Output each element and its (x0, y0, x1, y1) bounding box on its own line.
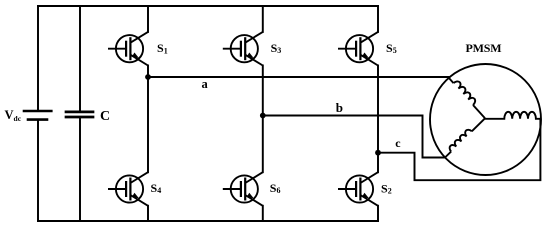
winding phase c (right coil) (485, 112, 540, 119)
wire: leg1 top (rail to S1 collector) (147, 6, 149, 32)
wire: leg3 S5 emitter to S2 collector (through node c) (377, 66, 379, 173)
transistor S6 (223, 172, 263, 206)
wire: capacitor branch lower lead (79, 118, 81, 221)
transistor S1 (108, 32, 148, 66)
PMSM motor body circle (430, 64, 541, 175)
wire: battery branch upper lead (37, 6, 39, 110)
wire: phase b line with jog down to motor (263, 116, 445, 158)
winding phase a (upper-left coil) (449, 78, 486, 119)
wire: leg2 S6 emitter to bottom rail (262, 206, 264, 221)
wire: leg3 S2 emitter to bottom rail (377, 206, 379, 221)
winding phase b (lower-left coil) (445, 118, 485, 157)
wire: battery branch lower lead (37, 121, 39, 221)
svg-text:PMSM: PMSM (466, 41, 502, 55)
transistor S3 (223, 32, 263, 66)
transistor S2 (338, 172, 378, 206)
wire: phase a line (148, 76, 449, 78)
wire: leg2 S3 emitter to S6 collector (through node b) (262, 66, 264, 173)
wire: leg3 top (rail to S5 collector) (377, 6, 379, 32)
wire: phase c line with jog down and around to motor right side (378, 119, 540, 180)
wire: leg1 S1 emitter to node a (147, 66, 149, 78)
node c junction dot (375, 150, 381, 156)
svg-text:a: a (202, 77, 209, 91)
wire: leg1 S4 emitter to bottom rail (147, 206, 149, 221)
svg-text:C: C (100, 109, 110, 124)
capacitor C bottom plate (66, 116, 93, 119)
wire: bottom DC bus rail (38, 220, 378, 222)
capacitor C top plate (66, 111, 93, 114)
svg-text:c: c (395, 136, 401, 150)
wire: leg1 node a to S4 collector (147, 77, 149, 172)
battery Vdc negative plate (28, 118, 47, 121)
node a junction dot (145, 74, 151, 80)
node b junction dot (260, 113, 266, 119)
battery Vdc positive plate (24, 110, 51, 113)
svg-text:b: b (336, 100, 343, 115)
transistor S4 (108, 172, 148, 206)
transistor S5 (338, 32, 378, 66)
wire: leg2 top (rail to S3 collector) (262, 6, 264, 32)
wire: top DC bus rail (38, 5, 378, 7)
wire: capacitor branch upper lead (79, 6, 81, 111)
